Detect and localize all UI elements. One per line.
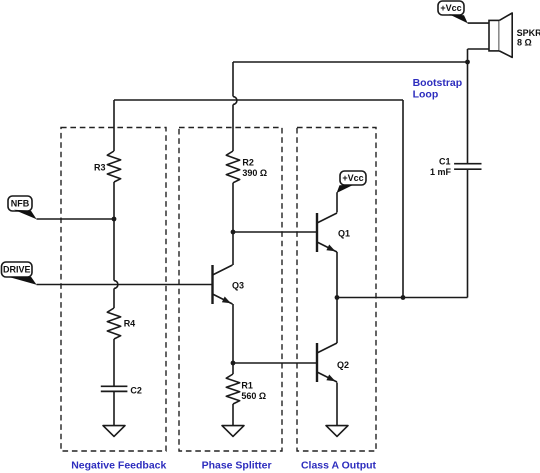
svg-text:390 Ω: 390 Ω bbox=[242, 168, 267, 178]
svg-text:Class A Output: Class A Output bbox=[301, 460, 377, 472]
svg-text:R4: R4 bbox=[124, 319, 136, 329]
svg-text:Bootstrap: Bootstrap bbox=[413, 77, 463, 89]
svg-text:Phase Splitter: Phase Splitter bbox=[202, 460, 272, 472]
svg-text:Q2: Q2 bbox=[337, 360, 349, 370]
svg-text:8 Ω: 8 Ω bbox=[517, 37, 532, 47]
svg-text:+Vcc: +Vcc bbox=[440, 3, 461, 13]
svg-text:560 Ω: 560 Ω bbox=[241, 391, 266, 401]
svg-text:R1: R1 bbox=[241, 380, 253, 390]
svg-text:C1: C1 bbox=[439, 157, 451, 167]
svg-text:+Vcc: +Vcc bbox=[342, 173, 363, 183]
svg-text:DRIVE: DRIVE bbox=[3, 265, 31, 275]
svg-text:R3: R3 bbox=[94, 163, 106, 173]
svg-text:Negative Feedback: Negative Feedback bbox=[71, 460, 166, 472]
svg-text:1 mF: 1 mF bbox=[430, 167, 452, 177]
svg-text:R2: R2 bbox=[242, 158, 254, 168]
svg-text:Q3: Q3 bbox=[232, 281, 244, 291]
svg-text:NFB: NFB bbox=[11, 199, 30, 209]
svg-text:C2: C2 bbox=[130, 386, 142, 396]
svg-text:Q1: Q1 bbox=[338, 228, 350, 238]
svg-text:Loop: Loop bbox=[413, 88, 439, 100]
